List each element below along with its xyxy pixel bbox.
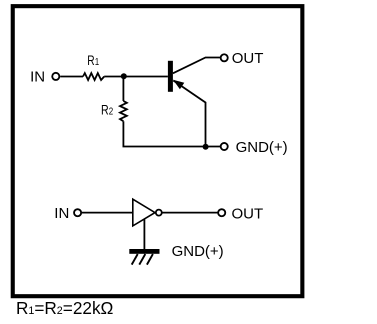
terminal OUT (bottom): [218, 209, 225, 216]
wire IN to R1: [60, 76, 83, 78]
svg-text:2: 2: [109, 105, 113, 116]
svg-text:R: R: [87, 53, 95, 69]
svg-text:OUT: OUT: [232, 206, 264, 223]
terminal IN (bottom): [74, 209, 81, 216]
inverter U1 triangle: [133, 199, 155, 226]
ground: [129, 249, 159, 265]
svg-text:OUT: OUT: [232, 50, 264, 67]
svg-text:GND(+): GND(+): [236, 139, 288, 156]
wire IN to inverter: [82, 212, 133, 214]
wire inverter to ground: [143, 219, 145, 249]
terminal OUT (top): [221, 54, 228, 61]
transistor Q1 base bar: [168, 61, 173, 92]
resistor R2: [120, 101, 127, 121]
border frame: [13, 6, 303, 296]
value label R1=R2=22k ohm: [16, 298, 114, 318]
wire R1 to base: [104, 76, 168, 78]
wire junction to R2: [122, 77, 124, 102]
terminal GND (top): [221, 143, 228, 150]
label R1: [87, 53, 99, 69]
svg-text:GND(+): GND(+): [172, 243, 224, 260]
junction ground rail: [203, 144, 209, 150]
svg-text:1: 1: [95, 56, 99, 67]
svg-text:IN: IN: [54, 205, 69, 222]
transistor Q1 collector wire to OUT: [173, 58, 221, 74]
junction node: [121, 73, 127, 79]
terminal IN (top): [52, 73, 59, 80]
resistor R1: [83, 73, 104, 80]
transistor Q1 emitter arrow (PNP): [173, 80, 184, 89]
svg-text:R: R: [16, 298, 28, 318]
wire R2 to ground rail: [123, 121, 220, 146]
svg-text:=22kΩ: =22kΩ: [63, 298, 114, 318]
inverter U1 output bubble: [156, 210, 162, 216]
svg-text:R: R: [101, 102, 109, 118]
transistor Q1 emitter wire: [173, 81, 205, 147]
svg-text:=R: =R: [34, 298, 56, 318]
wire inverter to OUT: [163, 212, 219, 214]
label R2: [101, 102, 113, 118]
svg-text:IN: IN: [30, 68, 45, 85]
